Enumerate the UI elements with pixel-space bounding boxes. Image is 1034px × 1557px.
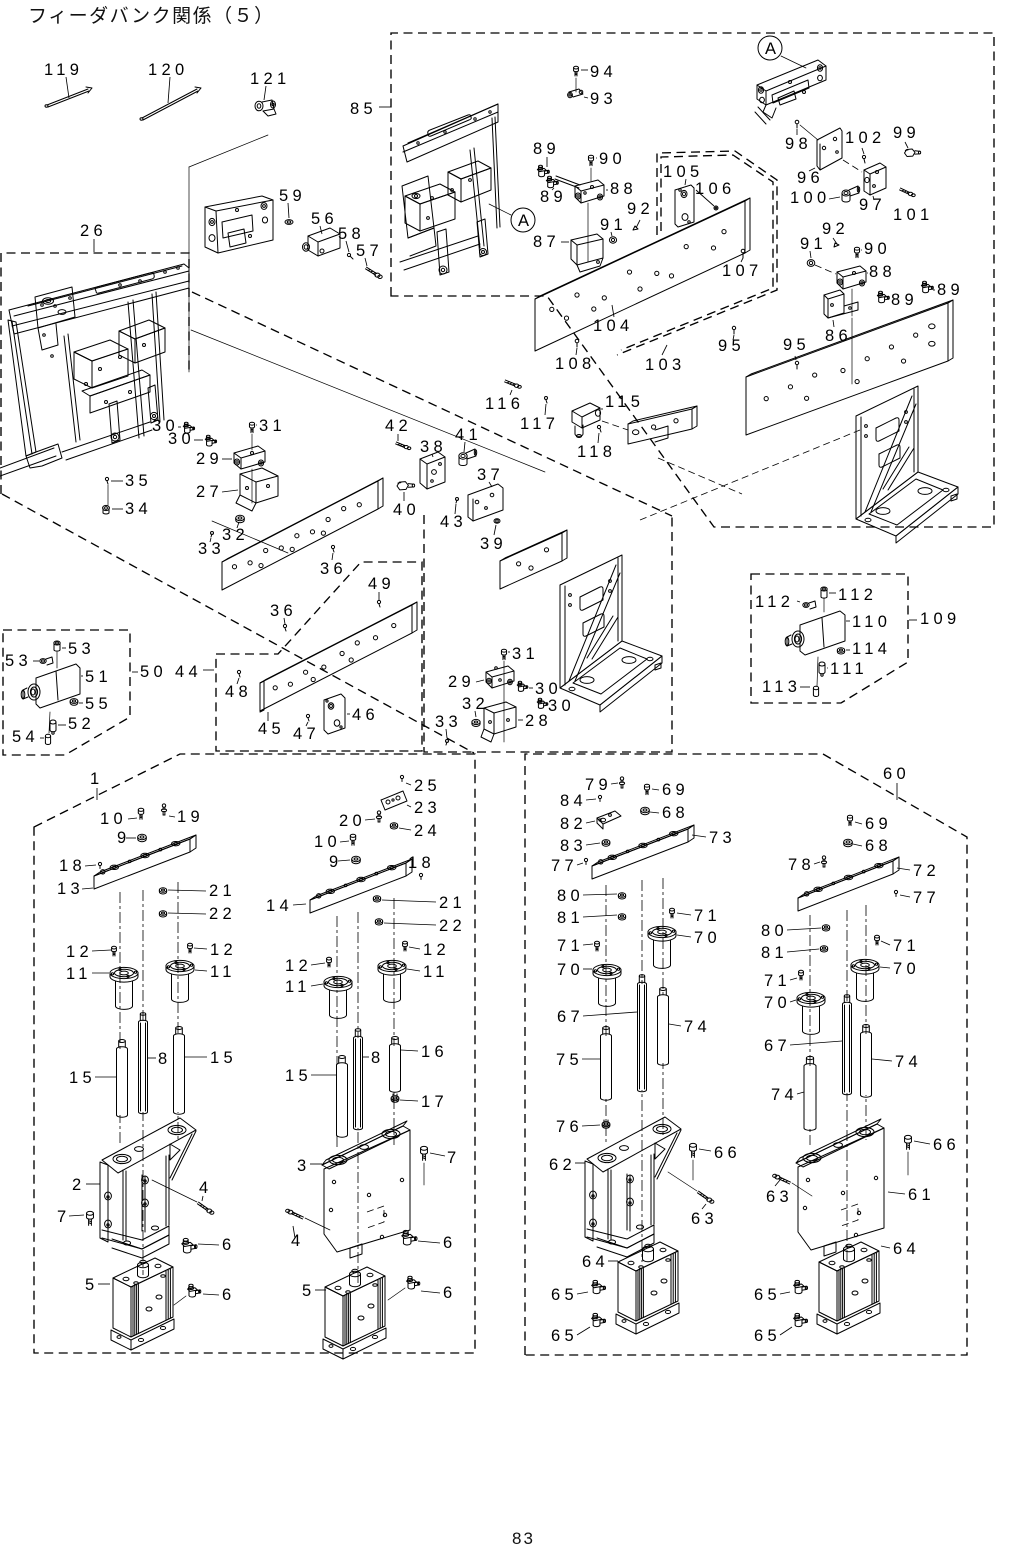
- svg-text:95: 95: [783, 336, 810, 354]
- svg-text:83: 83: [560, 837, 587, 855]
- leader 6 A2a: [418, 1241, 440, 1243]
- leader 16: [401, 1050, 418, 1051]
- centerline A2 right: [393, 898, 395, 1145]
- svg-text:27: 27: [196, 483, 223, 501]
- part 89 elbows pair: [537, 165, 558, 187]
- rod 89 to 88: [555, 176, 580, 188]
- leader 71 A3L: [583, 944, 593, 945]
- bar 72: [798, 857, 899, 911]
- centerline A3 left: [605, 885, 607, 1145]
- part 9 nut A2: [352, 856, 361, 863]
- svg-text:4: 4: [291, 1232, 304, 1250]
- part 9 nut: [138, 834, 147, 841]
- part 106 screw: [714, 206, 718, 210]
- svg-text:50: 50: [140, 663, 167, 681]
- svg-text:95: 95: [718, 337, 745, 355]
- part 117 screw: [545, 397, 548, 404]
- leader 17: [400, 1100, 418, 1101]
- part 4 screw A2: [286, 1209, 304, 1219]
- dashes 91-88: [815, 265, 836, 274]
- svg-text:58: 58: [338, 225, 365, 243]
- leader 13: [82, 888, 93, 889]
- part 51 cylinder: [21, 664, 80, 708]
- part 12 screw A2L: [327, 957, 332, 967]
- part 108 screw: [575, 339, 579, 347]
- leader 60: [896, 783, 898, 800]
- leader 65 A3a: [577, 1292, 588, 1294]
- svg-text:105: 105: [663, 163, 703, 181]
- leader 36 a: [332, 553, 333, 560]
- detail A plate: [755, 60, 826, 124]
- leader 15 A2: [311, 1074, 336, 1076]
- part 21 nut A2: [373, 896, 380, 902]
- part 25 screw: [400, 775, 403, 781]
- svg-text:15: 15: [285, 1067, 312, 1085]
- part 65 elbow A4a: [794, 1280, 808, 1293]
- leader 36 b: [284, 618, 285, 624]
- part 83 nut: [602, 840, 610, 847]
- leader 90 right: [861, 249, 862, 251]
- leader 10 A2: [340, 841, 349, 842]
- svg-text:116: 116: [485, 395, 524, 413]
- svg-text:60: 60: [883, 765, 910, 783]
- centerline A2 mid: [357, 912, 359, 1285]
- svg-text:29: 29: [196, 450, 223, 468]
- part 20 pin: [376, 811, 381, 822]
- leader 49: [378, 592, 380, 600]
- leader 11 A2R: [407, 969, 420, 971]
- svg-text:71: 71: [764, 972, 791, 990]
- circle A right: [758, 36, 782, 60]
- svg-text:75: 75: [556, 1051, 583, 1069]
- part 34 fitting: [103, 505, 110, 514]
- svg-text:54: 54: [12, 728, 39, 746]
- svg-text:73: 73: [709, 829, 736, 847]
- part 91 washer left: [609, 237, 616, 243]
- part 7 screw A2: [421, 1146, 428, 1160]
- svg-text:70: 70: [764, 994, 791, 1012]
- wire 29-27: [251, 469, 253, 503]
- part 54 plug: [45, 734, 50, 744]
- leader 56: [320, 226, 322, 234]
- bushing 70 A3R: [648, 926, 676, 968]
- leader 116: [510, 390, 512, 395]
- svg-text:11: 11: [66, 965, 92, 983]
- svg-text:49: 49: [368, 575, 395, 593]
- leader 30 a: [178, 426, 181, 428]
- leader 81 A4: [787, 949, 819, 952]
- svg-text:77: 77: [551, 857, 578, 875]
- dashes 115-plate: [602, 421, 628, 430]
- svg-text:98: 98: [785, 135, 812, 153]
- part 78 pin: [821, 856, 826, 867]
- leader 95 right: [795, 356, 796, 360]
- leader 11 R: [195, 970, 207, 971]
- leader 23: [407, 805, 411, 807]
- leader 104: [612, 305, 614, 317]
- part 71 screw A4R: [875, 935, 880, 945]
- part 39 washer: [494, 519, 500, 523]
- svg-text:99: 99: [893, 124, 920, 142]
- part 114 screw: [837, 648, 844, 654]
- leader 117: [545, 404, 546, 415]
- leader 12 R: [194, 948, 207, 949]
- svg-text:41: 41: [455, 426, 482, 444]
- part 53 fitting left: [40, 657, 53, 665]
- leader 25: [406, 783, 411, 785]
- dashed diagonal E1: [640, 430, 860, 520]
- plate 103: [746, 300, 953, 435]
- svg-text:76: 76: [556, 1118, 583, 1136]
- part 47 screw: [306, 714, 309, 721]
- part 4 screw: [197, 1202, 213, 1214]
- svg-text:110: 110: [852, 613, 891, 631]
- leader 32 b: [475, 711, 476, 717]
- part 65 elbow A3a: [592, 1280, 606, 1293]
- leader 53 top: [62, 647, 66, 649]
- tube 15 R: [174, 1027, 185, 1115]
- leader 22: [168, 913, 206, 914]
- part 23 plate: [381, 791, 407, 810]
- svg-text:71: 71: [557, 937, 584, 955]
- part 21 nut: [159, 888, 166, 894]
- leader 68 A4: [853, 844, 862, 846]
- svg-text:85: 85: [350, 100, 377, 118]
- bushing 11 A2L: [324, 976, 352, 1018]
- part 95 screw right: [795, 361, 798, 369]
- cylinder 64 A3: [616, 1242, 679, 1334]
- part 76 nut: [602, 1120, 610, 1128]
- part 71 screw A3L: [595, 941, 600, 951]
- svg-text:21: 21: [439, 894, 466, 912]
- part 88 left block: [575, 180, 604, 203]
- leader 74 A4L: [797, 1092, 804, 1094]
- part 58 screw: [347, 253, 353, 259]
- part 19 pin: [161, 804, 166, 815]
- leader 6 a: [198, 1244, 219, 1245]
- leader 31 b: [508, 651, 510, 653]
- svg-text:10: 10: [314, 833, 341, 851]
- leader 106: [696, 190, 714, 206]
- svg-text:89: 89: [937, 281, 964, 299]
- tube 74 A4R: [861, 1025, 872, 1098]
- part 118 screw: [597, 425, 601, 432]
- part 63 screw A4: [773, 1174, 791, 1184]
- leader 67 A4: [790, 1041, 842, 1045]
- svg-text:3: 3: [297, 1157, 310, 1175]
- svg-text:7: 7: [447, 1149, 460, 1167]
- part 49 screw: [377, 600, 380, 607]
- part 89 right elbow b: [877, 291, 889, 302]
- wire 6b-block A2: [388, 1288, 405, 1300]
- bushing 70 A4L: [797, 992, 825, 1034]
- leader 18: [85, 865, 96, 866]
- part 53 fitting top: [54, 641, 60, 651]
- leader 8 A2: [363, 1056, 369, 1058]
- gusset left: [560, 555, 662, 712]
- centerline A3 mid: [641, 880, 643, 1262]
- leader 67 A3: [583, 1012, 637, 1016]
- part 71 screw A3R: [670, 908, 675, 918]
- leader 10: [128, 818, 137, 819]
- svg-text:67: 67: [557, 1008, 584, 1026]
- svg-text:63: 63: [766, 1188, 793, 1206]
- wire 66-bracket A4: [907, 1152, 909, 1175]
- leader 88 left: [606, 189, 608, 191]
- svg-text:71: 71: [694, 907, 721, 925]
- svg-text:33: 33: [198, 540, 225, 558]
- svg-text:109: 109: [920, 610, 960, 628]
- tube 74 A3: [658, 988, 669, 1066]
- svg-text:67: 67: [764, 1037, 791, 1055]
- wire 63-bracket A3: [668, 1172, 697, 1191]
- svg-text:45: 45: [258, 720, 285, 738]
- part 6 elbow b: [188, 1284, 201, 1297]
- leader 103: [662, 345, 667, 355]
- part 69 screw A3: [644, 784, 649, 794]
- part 12 screw R: [188, 943, 193, 953]
- svg-text:108: 108: [555, 355, 595, 373]
- part 93 clip: [568, 89, 583, 98]
- svg-text:68: 68: [662, 804, 689, 822]
- svg-text:8: 8: [371, 1049, 384, 1067]
- svg-text:52: 52: [68, 715, 95, 733]
- svg-text:112: 112: [755, 593, 794, 611]
- leader 5: [98, 1283, 110, 1285]
- wire 4-bracket A2: [305, 1218, 330, 1230]
- part 35 screw: [105, 477, 108, 484]
- leader 85: [379, 106, 391, 108]
- leader 86: [833, 320, 834, 327]
- bushing 70 A4R: [851, 959, 879, 1001]
- svg-text:13: 13: [57, 880, 84, 898]
- leader 50: [132, 671, 138, 673]
- svg-text:69: 69: [865, 815, 892, 833]
- svg-text:30: 30: [168, 430, 195, 448]
- part 42 screw: [396, 442, 411, 450]
- leader 48: [237, 678, 239, 684]
- part 80 nut A3: [618, 893, 625, 899]
- part 80 nut A4: [822, 925, 829, 931]
- svg-text:21: 21: [209, 882, 236, 900]
- part 43 screw: [456, 498, 459, 504]
- part 81 nut A4: [820, 946, 827, 952]
- leader 45: [267, 712, 269, 721]
- bracket 3: [322, 1121, 410, 1258]
- frame 26 drawing: [0, 264, 189, 476]
- part 115 valve: [572, 403, 601, 438]
- svg-text:78: 78: [788, 856, 815, 874]
- leader 94: [581, 69, 588, 71]
- tube 74 A4L: [804, 1056, 816, 1130]
- bar 13: [94, 835, 196, 889]
- svg-text:96: 96: [797, 169, 824, 187]
- svg-text:42: 42: [385, 417, 412, 435]
- plate 45: [260, 602, 417, 711]
- svg-text:4: 4: [199, 1179, 212, 1197]
- svg-text:63: 63: [691, 1210, 718, 1228]
- svg-text:24: 24: [414, 822, 441, 840]
- leader 108: [576, 348, 577, 355]
- part 63 screw A3: [697, 1191, 713, 1203]
- leader 105: [685, 179, 686, 185]
- part 81 nut A3: [618, 914, 625, 920]
- part 100 elbow: [842, 186, 860, 202]
- svg-text:1: 1: [90, 770, 103, 788]
- centerline A4 mid: [846, 910, 848, 1262]
- part 94 screw: [574, 66, 579, 76]
- leader 7 A2: [430, 1153, 445, 1156]
- svg-text:12: 12: [210, 941, 237, 959]
- leader 29: [222, 458, 232, 460]
- svg-text:82: 82: [560, 815, 587, 833]
- leader 34: [112, 508, 123, 510]
- svg-text:64: 64: [893, 1240, 920, 1258]
- leader 62: [575, 1162, 585, 1164]
- wire 66-bracket A3: [692, 1160, 694, 1180]
- svg-text:20: 20: [339, 812, 366, 830]
- part 77 screw A3: [584, 858, 587, 864]
- svg-text:51: 51: [85, 668, 112, 686]
- svg-text:6: 6: [222, 1286, 235, 1304]
- svg-text:118: 118: [577, 443, 616, 461]
- svg-text:12: 12: [423, 941, 450, 959]
- leader 79: [611, 783, 618, 784]
- part 36 screw b: [283, 624, 286, 631]
- part 31 screw b: [501, 649, 506, 659]
- part 116 screw: [505, 380, 522, 388]
- wire 4-bracket: [152, 1180, 197, 1202]
- svg-text:61: 61: [908, 1186, 935, 1204]
- leader 54: [40, 737, 44, 739]
- centerline A4 left: [809, 915, 811, 1145]
- part 17 nut: [391, 1094, 399, 1102]
- part 40 fitting: [397, 482, 415, 490]
- svg-text:53: 53: [5, 652, 32, 670]
- leader 44: [203, 669, 214, 671]
- part 6 elbow A2a: [402, 1230, 417, 1245]
- leader 114: [846, 649, 850, 651]
- bushing 11 R: [166, 960, 194, 1002]
- leader 41: [464, 442, 465, 452]
- leader 89 upper-left: [546, 157, 548, 167]
- svg-text:19: 19: [177, 808, 204, 826]
- part 107 screw: [741, 249, 745, 258]
- leader 82: [586, 821, 595, 823]
- centerline A1 left: [119, 892, 121, 1146]
- svg-text:114: 114: [852, 640, 891, 658]
- dashed box 1: [34, 754, 475, 1353]
- leader 90 left: [596, 157, 597, 159]
- leader 64 A3: [608, 1260, 618, 1262]
- svg-text:43: 43: [440, 513, 467, 531]
- leader 19: [169, 816, 175, 817]
- svg-text:90: 90: [864, 240, 891, 258]
- part 105 plate: [675, 185, 694, 227]
- part 66 screw A4: [905, 1135, 912, 1149]
- leader 89 right a: [933, 289, 935, 291]
- wire 35-34: [107, 485, 109, 505]
- leader 22 A2: [384, 923, 436, 925]
- part 77 screw A4: [894, 890, 897, 896]
- part 121 clamp: [255, 100, 276, 116]
- wire 31b-29b: [503, 661, 505, 742]
- gusset right: [856, 386, 958, 543]
- leader 70 A3R: [677, 935, 691, 937]
- leader 81 A3: [583, 915, 617, 917]
- svg-text:79: 79: [585, 776, 612, 794]
- leader 77 A4: [900, 895, 910, 897]
- part 66 screw A3: [690, 1143, 697, 1157]
- part 22 nut: [159, 911, 166, 917]
- wire 112-110: [823, 598, 825, 612]
- leader 95 left: [733, 335, 734, 340]
- svg-text:70: 70: [694, 929, 721, 947]
- svg-text:103: 103: [645, 356, 685, 374]
- svg-text:88: 88: [869, 263, 896, 281]
- wire 7-bracket A2: [423, 1163, 425, 1185]
- dashed box 44: [216, 562, 422, 751]
- leader 89 right b: [887, 298, 889, 300]
- leader 9: [126, 837, 136, 839]
- svg-text:33: 33: [435, 713, 462, 731]
- bushing 11 A2R: [378, 960, 406, 1002]
- svg-text:120: 120: [148, 61, 188, 79]
- part 41 elbow: [459, 449, 477, 466]
- part 30 fitting b: [205, 435, 216, 446]
- part 12 screw A2R: [403, 941, 408, 951]
- cylinder 5 A2: [323, 1267, 386, 1359]
- svg-text:25: 25: [414, 777, 441, 795]
- dashed box 50: [3, 630, 130, 755]
- dashed box 28 cluster: [424, 515, 672, 752]
- part 90 screw right: [854, 247, 859, 257]
- part 120 rod: [140, 87, 201, 120]
- svg-text:55: 55: [85, 695, 112, 713]
- part 102 screw: [862, 155, 865, 163]
- frame 85 drawing: [400, 104, 500, 275]
- svg-text:77: 77: [913, 889, 940, 907]
- svg-text:117: 117: [520, 415, 559, 433]
- svg-text:A: A: [518, 212, 533, 230]
- svg-text:91: 91: [600, 216, 627, 234]
- leader 42: [397, 434, 399, 441]
- part 33 screw b: [446, 740, 449, 746]
- svg-text:90: 90: [599, 150, 626, 168]
- svg-text:32: 32: [222, 526, 249, 544]
- svg-text:66: 66: [933, 1136, 960, 1154]
- svg-text:65: 65: [551, 1327, 578, 1345]
- svg-text:11: 11: [210, 963, 236, 981]
- dashed box inner detail 105: [617, 151, 777, 355]
- svg-text:72: 72: [913, 862, 940, 880]
- svg-text:59: 59: [279, 187, 306, 205]
- part 22 nut A2: [375, 919, 382, 925]
- svg-text:74: 74: [771, 1086, 798, 1104]
- tube 75: [601, 1027, 612, 1101]
- svg-text:121: 121: [250, 70, 290, 88]
- dashes 96-97: [843, 160, 862, 172]
- part 29 block upper: [234, 446, 265, 469]
- part 65 elbow A4b: [794, 1313, 808, 1326]
- part 95 screw left: [732, 326, 735, 334]
- leader 61: [888, 1192, 905, 1194]
- leader 88 right: [867, 272, 868, 274]
- svg-text:5: 5: [85, 1276, 98, 1294]
- svg-text:74: 74: [895, 1053, 922, 1071]
- dashed diagonal D2: [192, 292, 672, 516]
- svg-text:56: 56: [311, 210, 338, 228]
